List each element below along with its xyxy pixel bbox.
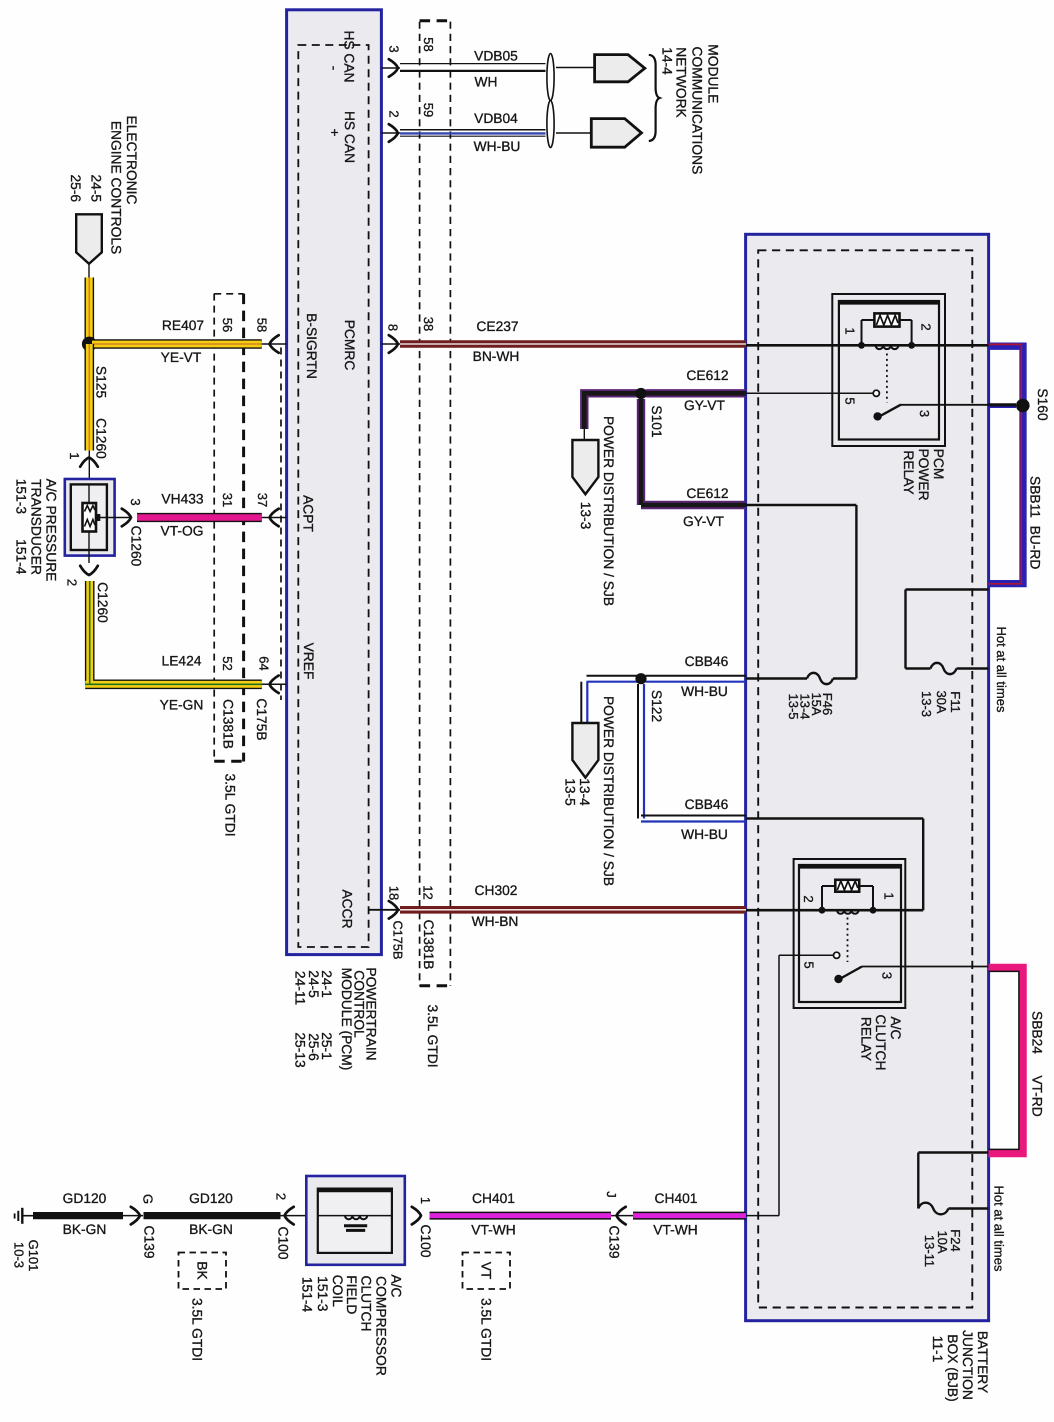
- inline connector C139 arrow: [123, 1215, 143, 1217]
- transducer internal vertical wire: [88, 484, 90, 550]
- svg-text:VREF: VREF: [301, 643, 316, 680]
- off-page arrow POWER DISTRIBUTION / SJB 13-3: [572, 440, 598, 494]
- pin arrow PCM pin 2: [381, 132, 400, 134]
- svg-text:POWER DISTRIBUTION / SJB: POWER DISTRIBUTION / SJB: [601, 416, 616, 606]
- svg-text:WH-BU: WH-BU: [681, 684, 728, 699]
- A/C clutch relay resistor branch: [822, 885, 835, 887]
- svg-text:2: 2: [274, 1193, 289, 1200]
- BJB internal wire from CE612 entry to vertical: [746, 504, 856, 506]
- svg-text:13-11: 13-11: [922, 1235, 937, 1267]
- pin arrow C1260 pin 1: [80, 458, 98, 467]
- svg-text:3: 3: [880, 972, 895, 979]
- wire VH433 VT-OG to PCM pin 37: [137, 513, 262, 522]
- svg-text:TRANSDUCER: TRANSDUCER: [28, 479, 43, 575]
- svg-text:COMMUNICATIONS: COMMUNICATIONS: [689, 47, 704, 175]
- svg-text:SBB11: SBB11: [1028, 476, 1043, 518]
- wire CH401 VT-WH C139 to BJB: [633, 1212, 746, 1220]
- wire yellow vertical S125 down to C1260 pin 1: [85, 344, 95, 451]
- svg-text:MODULE (PCM): MODULE (PCM): [339, 968, 354, 1071]
- transducer pin 2 arrow: [88, 550, 90, 563]
- svg-text:WH-BU: WH-BU: [681, 827, 728, 842]
- svg-text:C1381B: C1381B: [421, 920, 436, 970]
- svg-text:10-3: 10-3: [12, 1242, 27, 1268]
- wire GD120 BK-GN ground to C139: [33, 1212, 123, 1219]
- svg-text:C100: C100: [418, 1225, 433, 1258]
- svg-text:3.5L GTDI: 3.5L GTDI: [425, 1004, 440, 1067]
- svg-text:VT-WH: VT-WH: [471, 1223, 515, 1238]
- connector C175B dashed line left of PCM: [280, 348, 282, 701]
- svg-text:WH-BU: WH-BU: [474, 139, 521, 154]
- powertrain control module (PCM) U1 box: [287, 10, 382, 955]
- svg-text:Hot at all times: Hot at all times: [994, 627, 1009, 713]
- svg-text:-: -: [327, 66, 342, 71]
- splice S122: [635, 673, 646, 684]
- dashed code box BK: [179, 1253, 227, 1290]
- svg-text:25-6: 25-6: [68, 174, 83, 202]
- PCM power relay pin 5 contact: [873, 390, 879, 396]
- svg-text:POWER DISTRIBUTION / SJB: POWER DISTRIBUTION / SJB: [601, 696, 616, 886]
- svg-text:BOX (BJB): BOX (BJB): [945, 1334, 960, 1401]
- splice S125: [82, 337, 97, 352]
- PCM power relay coil: [876, 345, 899, 349]
- BJB internal wire through PCM power relay coil: [746, 344, 989, 347]
- pin arrow PCM pin 8: [381, 343, 400, 345]
- svg-text:YE-VT: YE-VT: [161, 350, 202, 365]
- svg-text:SBB24: SBB24: [1030, 1011, 1045, 1054]
- svg-text:CBB46: CBB46: [685, 654, 729, 669]
- svg-text:C175B: C175B: [391, 920, 406, 959]
- svg-text:2: 2: [919, 323, 934, 330]
- svg-text:58: 58: [255, 318, 270, 332]
- off-page arrow ELECTRONIC ENGINE CONTROLS: [76, 214, 102, 263]
- svg-text:ELECTRONIC: ELECTRONIC: [124, 116, 139, 205]
- svg-text:14-4: 14-4: [660, 47, 675, 75]
- wire SBB24 VT-RD loop outside BJB right edge: [989, 968, 1024, 1154]
- off-page arrow VDB05 to network: [595, 55, 645, 82]
- svg-text:WH: WH: [475, 75, 498, 90]
- dashed code box VT: [463, 1253, 511, 1290]
- svg-text:3: 3: [917, 410, 932, 417]
- connector C1381B dashed box left of PCM: [213, 294, 215, 762]
- A/C compressor clutch field coil box: [306, 1176, 405, 1265]
- svg-text:3: 3: [128, 498, 143, 505]
- splice S101: [635, 388, 646, 399]
- svg-text:HS CAN: HS CAN: [342, 111, 357, 163]
- svg-text:VT-RD: VT-RD: [1030, 1075, 1045, 1116]
- brace for module communications network: [649, 55, 660, 141]
- A/C clutch relay pin 5 contact: [834, 952, 840, 958]
- svg-text:13-5: 13-5: [563, 778, 578, 806]
- svg-text:CH401: CH401: [472, 1191, 515, 1206]
- connector C1381B dashed box right of PCM: [419, 22, 421, 986]
- svg-text:30A: 30A: [934, 690, 949, 713]
- svg-text:A/C: A/C: [389, 1275, 404, 1298]
- svg-text:BK-GN: BK-GN: [189, 1222, 233, 1237]
- svg-text:VDB04: VDB04: [474, 111, 518, 126]
- svg-text:3: 3: [387, 45, 402, 52]
- wire CBB46 WH-BU from S122 to BJB fuse F46: [646, 675, 747, 677]
- BJB internal wire from SBB11 to fuse F11: [906, 588, 989, 590]
- svg-text:CH302: CH302: [475, 883, 518, 898]
- svg-text:Hot at all times: Hot at all times: [992, 1186, 1007, 1272]
- svg-text:C1381B: C1381B: [221, 699, 236, 749]
- battery junction box (BJB) outline: [746, 234, 989, 1320]
- svg-text:PCM: PCM: [931, 449, 946, 480]
- svg-text:12: 12: [421, 885, 436, 899]
- transducer sensor element symbol: [83, 503, 97, 532]
- wire SBB11 BU-RD loop outside BJB right edge: [989, 346, 1024, 583]
- inline connector C139 arrow on CH401: [617, 1207, 626, 1225]
- svg-text:PCMRC: PCMRC: [342, 320, 357, 371]
- wire CE612 GY-VT from S101 down to BJB fuse F46: [641, 399, 746, 505]
- svg-text:C139: C139: [607, 1226, 622, 1259]
- svg-text:13-4: 13-4: [577, 778, 592, 806]
- svg-text:S160: S160: [1035, 388, 1050, 421]
- svg-text:11-1: 11-1: [930, 1336, 945, 1363]
- wire CBB46 WH-BU from S122 down to A/C clutch relay: [637, 684, 639, 819]
- svg-text:GY-VT: GY-VT: [684, 398, 725, 413]
- wire CE237 BN-WH from PCM pin 8 to BJB: [400, 340, 746, 348]
- BJB internal wire from CH401 entry up to relay pin 5: [746, 1215, 779, 1217]
- svg-text:BU-RD: BU-RD: [1028, 526, 1043, 570]
- svg-text:3.5L GTDI: 3.5L GTDI: [190, 1298, 205, 1361]
- svg-text:BK: BK: [195, 1261, 210, 1280]
- svg-text:C175B: C175B: [254, 698, 269, 740]
- svg-text:F11: F11: [948, 691, 963, 712]
- svg-text:B-SIGRTN: B-SIGRTN: [304, 313, 319, 379]
- BJB internal wire from relay pin 5 to left edge: [746, 392, 873, 394]
- svg-text:VT-WH: VT-WH: [653, 1223, 697, 1238]
- svg-text:CE612: CE612: [686, 486, 728, 501]
- splice S160: [989, 403, 1017, 407]
- wire stub to network arrow lower: [556, 132, 591, 134]
- svg-text:3.5L GTDI: 3.5L GTDI: [479, 1298, 494, 1361]
- svg-text:151-3: 151-3: [315, 1276, 330, 1312]
- wire CE612 GY-VT from S101 left to off-page arrow: [584, 393, 641, 429]
- svg-text:VH433: VH433: [161, 492, 204, 507]
- svg-text:CLUTCH: CLUTCH: [873, 1015, 888, 1071]
- pin arrow C100 pin 2: [285, 1207, 294, 1225]
- svg-text:13-3: 13-3: [578, 502, 593, 530]
- svg-text:18: 18: [387, 886, 402, 900]
- svg-text:2: 2: [387, 110, 402, 117]
- svg-text:56: 56: [220, 318, 235, 332]
- svg-text:C1260: C1260: [129, 526, 144, 567]
- fuse F24 10A: [918, 1203, 948, 1215]
- svg-text:CBB46: CBB46: [685, 797, 729, 812]
- svg-text:+: +: [327, 128, 342, 136]
- svg-text:C1260: C1260: [95, 582, 110, 623]
- off-page arrow VDB04 to network: [591, 119, 641, 148]
- svg-text:G: G: [141, 1194, 156, 1204]
- svg-text:1: 1: [882, 892, 897, 899]
- svg-text:ACCR: ACCR: [340, 889, 355, 928]
- pin arrow C100 pin 1: [412, 1207, 421, 1225]
- A/C clutch relay coil: [837, 910, 859, 914]
- svg-text:59: 59: [421, 103, 436, 117]
- svg-text:151-4: 151-4: [300, 1277, 315, 1313]
- svg-text:5: 5: [843, 397, 858, 404]
- PCM power relay switch blade to pin 3: [873, 412, 881, 420]
- svg-text:58: 58: [421, 37, 436, 51]
- svg-text:RELAY: RELAY: [859, 1017, 874, 1061]
- BJB internal wire from relay pin 5 down to CH401: [779, 954, 833, 956]
- fuse F11 30A: [906, 667, 931, 669]
- svg-text:COMPRESSOR: COMPRESSOR: [374, 1276, 389, 1376]
- pin arrow into PCM pin 58: [270, 335, 279, 353]
- twisted pair loop symbol: [547, 54, 554, 101]
- svg-text:S122: S122: [649, 690, 664, 722]
- svg-text:1: 1: [843, 327, 858, 334]
- svg-text:37: 37: [255, 493, 270, 507]
- BJB inner dashed outline: [758, 250, 972, 1307]
- PCM inner dashed outline: [298, 45, 368, 947]
- wire CE612 GY-VT from S101 to BJB: [646, 389, 747, 397]
- pin arrow PCM pin 3: [381, 67, 400, 69]
- svg-text:CE612: CE612: [686, 368, 728, 383]
- wire GD120 BK-GN C139 to C100: [144, 1212, 281, 1219]
- svg-text:NETWORK: NETWORK: [674, 47, 689, 118]
- wire CH302 WH-BN from PCM pin 18 to BJB: [400, 906, 746, 914]
- wire CBB46 WH-BU from S122 left to off-page arrow: [587, 675, 642, 677]
- svg-text:J: J: [604, 1191, 619, 1198]
- svg-text:8: 8: [386, 324, 401, 331]
- svg-text:52: 52: [220, 656, 235, 670]
- wire yellow vertical from arrow to S125: [85, 278, 95, 345]
- svg-text:BN-WH: BN-WH: [473, 349, 520, 364]
- A/C clutch relay armature dotted link: [847, 918, 849, 963]
- A/C pressure transducer box: [65, 479, 115, 556]
- svg-text:151-3: 151-3: [14, 479, 29, 515]
- compressor clutch coil symbol: [318, 1215, 392, 1217]
- svg-text:5: 5: [802, 961, 817, 968]
- wire VDB05 WH twisted pair upper: [400, 63, 546, 65]
- svg-text:1: 1: [67, 452, 82, 459]
- svg-text:HS CAN: HS CAN: [342, 30, 357, 82]
- wire RE407 YE-VT yellow horizontal S125 to PCM pin 58: [92, 339, 262, 349]
- svg-text:G101: G101: [26, 1240, 41, 1272]
- svg-text:FIELD: FIELD: [344, 1275, 359, 1314]
- svg-text:C1260: C1260: [94, 418, 109, 459]
- svg-text:WH-BN: WH-BN: [472, 914, 519, 929]
- svg-text:C139: C139: [142, 1226, 157, 1259]
- svg-text:CH401: CH401: [655, 1191, 698, 1206]
- svg-text:RE407: RE407: [162, 318, 204, 333]
- transducer pin 3 line to PCM: [96, 517, 130, 519]
- svg-text:A/C: A/C: [888, 1017, 903, 1040]
- svg-text:LE424: LE424: [162, 654, 202, 669]
- svg-text:ACPT: ACPT: [301, 495, 316, 532]
- pin arrow PCM pin 18 ACCR: [369, 909, 400, 911]
- wire CH401 VT-WH compressor to C139: [430, 1212, 612, 1220]
- svg-text:POWER: POWER: [916, 448, 931, 500]
- svg-text:25-13: 25-13: [293, 1032, 308, 1068]
- svg-text:ENGINE CONTROLS: ENGINE CONTROLS: [109, 121, 124, 254]
- svg-text:24-5: 24-5: [89, 174, 104, 202]
- relay K1 PCM POWER RELAY box: [832, 294, 945, 446]
- svg-text:JUNCTION: JUNCTION: [960, 1330, 975, 1400]
- svg-text:BATTERY: BATTERY: [975, 1331, 990, 1393]
- svg-text:GD120: GD120: [63, 1191, 107, 1206]
- PCM power relay armature dotted link: [886, 354, 888, 403]
- svg-text:CE237: CE237: [476, 319, 518, 334]
- svg-text:2: 2: [801, 895, 816, 902]
- svg-text:31: 31: [220, 493, 235, 507]
- svg-text:S101: S101: [649, 405, 664, 437]
- svg-text:24-11: 24-11: [293, 971, 308, 1005]
- svg-text:3.5L GTDI: 3.5L GTDI: [223, 773, 238, 836]
- svg-text:2: 2: [65, 579, 80, 586]
- wire VDB04 WH-BU twisted pair lower: [400, 129, 546, 131]
- wire stub to network arrow upper: [556, 67, 595, 69]
- svg-text:GY-VT: GY-VT: [683, 514, 724, 529]
- svg-text:CLUTCH: CLUTCH: [359, 1276, 374, 1332]
- svg-text:38: 38: [421, 317, 436, 331]
- svg-text:1: 1: [418, 1197, 433, 1204]
- wire stub below off-page arrow: [88, 264, 90, 278]
- ground G101 symbol: [21, 1208, 23, 1224]
- wire LE424 YE-GN from transducer pin 2 to PCM pin 64: [85, 581, 262, 684]
- svg-text:VT: VT: [479, 1262, 494, 1280]
- relay K2 A/C CLUTCH RELAY box: [794, 859, 906, 1008]
- svg-text:MODULE: MODULE: [705, 44, 720, 103]
- svg-text:A/C PRESSURE: A/C PRESSURE: [44, 479, 59, 582]
- BJB internal wire from CBB46 entry to A/C clutch relay pin 1: [746, 817, 923, 819]
- svg-text:13-5: 13-5: [786, 693, 801, 719]
- A/C clutch relay switch blade to pin 3: [834, 975, 842, 983]
- svg-text:YE-GN: YE-GN: [160, 698, 204, 713]
- svg-text:RELAY: RELAY: [901, 450, 916, 494]
- svg-text:GD120: GD120: [189, 1191, 233, 1206]
- svg-text:BK-GN: BK-GN: [63, 1222, 107, 1237]
- off-page arrow POWER DISTRIBUTION / SJB 13-4 13-5: [572, 723, 598, 778]
- fuse F46 15A: [746, 677, 807, 679]
- svg-text:S125: S125: [94, 366, 109, 399]
- BJB internal wire through A/C clutch relay coil: [746, 909, 923, 912]
- svg-text:C100: C100: [276, 1227, 291, 1260]
- svg-text:13-3: 13-3: [919, 691, 934, 717]
- svg-text:VDB05: VDB05: [474, 49, 518, 64]
- svg-text:151-4: 151-4: [14, 539, 29, 575]
- BJB internal wire from SBB24 to fuse F24: [918, 1151, 988, 1153]
- PCM power relay resistor branch: [862, 319, 875, 321]
- svg-text:VT-OG: VT-OG: [161, 524, 204, 539]
- svg-text:COIL: COIL: [330, 1275, 345, 1308]
- svg-text:64: 64: [257, 656, 272, 670]
